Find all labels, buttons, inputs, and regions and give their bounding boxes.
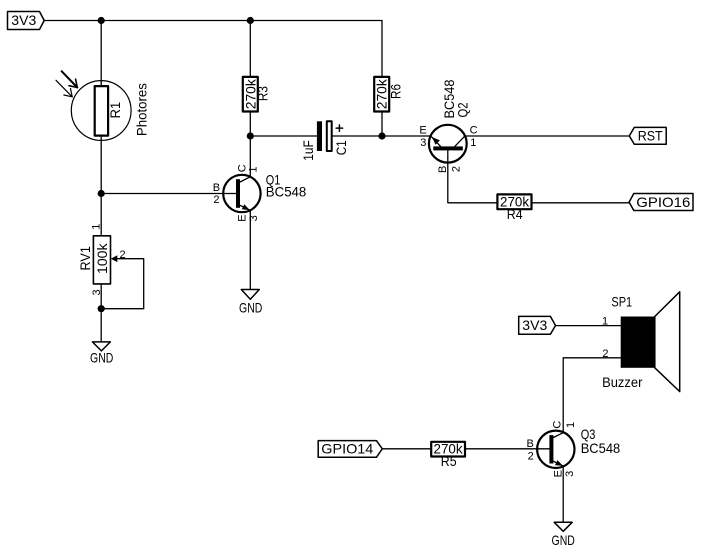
svg-text:E: E (419, 125, 426, 137)
R1 light arrow 1 (62, 71, 78, 87)
svg-text:RV1: RV1 (77, 246, 93, 270)
Q2 base bar (433, 146, 463, 150)
wire Q1 emitter to GND (249, 210, 251, 289)
svg-text:1: 1 (470, 137, 476, 149)
SP1 horn (655, 292, 680, 392)
wire R4 to GPIO16 (532, 202, 630, 204)
svg-text:Buzzer: Buzzer (602, 374, 643, 390)
wire Q2 base to R4 (448, 150, 498, 202)
Q1 emitter stroke (240, 205, 250, 210)
Q1 emitter arrow (242, 204, 250, 210)
svg-text:R5: R5 (441, 453, 457, 469)
svg-text:RST: RST (638, 128, 663, 144)
svg-text:R1: R1 (107, 102, 123, 119)
svg-text:1: 1 (602, 316, 608, 328)
svg-text:E: E (237, 214, 249, 221)
svg-text:GND: GND (552, 532, 575, 548)
wire top rail corner to R6 (381, 21, 383, 77)
wire top rail 3V3 (44, 20, 382, 22)
svg-text:C: C (470, 125, 478, 137)
photoresistor R1 (56, 71, 149, 140)
wire R3 bottom to node (249, 112, 251, 137)
svg-text:GPIO14: GPIO14 (321, 441, 373, 457)
ground (below Q1) (239, 290, 262, 316)
SP1 body rect (621, 317, 655, 368)
wire 3V3 to SP1 pin1 (556, 325, 621, 327)
RV1 wiper arrow (111, 255, 118, 262)
wire Q3 emitter to GND (562, 466, 564, 522)
potentiometer RV1 (77, 224, 126, 296)
svg-text:2: 2 (120, 249, 126, 261)
wire node to C1 (250, 135, 317, 137)
svg-text:R6: R6 (388, 84, 404, 99)
svg-text:1uF: 1uF (300, 140, 316, 161)
svg-text:Q2: Q2 (454, 102, 470, 117)
svg-text:1: 1 (91, 224, 103, 230)
svg-text:C1: C1 (333, 140, 349, 155)
transistor Q1 BC548 (213, 164, 307, 221)
C1 positive plate (327, 121, 332, 151)
svg-text:GND: GND (90, 350, 113, 366)
Q3 emitter stroke (553, 461, 563, 466)
R1 light arrow 2 (56, 80, 72, 97)
buzzer SP1 (602, 292, 680, 392)
Q2 body circle (429, 125, 467, 163)
ground (below RV1) (90, 342, 113, 366)
svg-text:3: 3 (564, 471, 576, 477)
svg-text:R4: R4 (507, 206, 523, 222)
node junction top rail / R1 (98, 17, 105, 24)
resistor R3 270k (242, 77, 270, 112)
C1 plus sign (336, 127, 342, 129)
svg-text:B: B (527, 438, 534, 450)
power flag 3V3 (top left) (8, 12, 45, 30)
wire R5 to Q3 base (465, 448, 549, 450)
svg-text:1: 1 (248, 166, 260, 172)
svg-text:BC548: BC548 (266, 183, 307, 199)
transistor Q2 BC548 (419, 79, 477, 173)
ground (below Q3) (552, 522, 575, 548)
svg-text:C: C (551, 421, 563, 429)
svg-text:2: 2 (450, 166, 462, 172)
Q1 collector stroke (240, 177, 250, 182)
node junction RV1 pin3 / wiper (98, 305, 105, 312)
svg-text:GND: GND (239, 299, 262, 315)
svg-text:2: 2 (528, 450, 534, 462)
wire R1 to RV1 (100, 136, 102, 236)
svg-text:3V3: 3V3 (522, 317, 547, 333)
Q2 emitter arrow (432, 137, 440, 145)
Q3 body circle (537, 431, 574, 468)
svg-text:1: 1 (565, 422, 577, 428)
node junction R6/C1/Q2 (378, 132, 385, 139)
Q2 collector stroke (455, 136, 465, 146)
svg-text:Photores: Photores (133, 83, 149, 136)
transistor Q3 BC548 (527, 421, 621, 478)
svg-text:B: B (213, 182, 220, 194)
wire R6 bottom to node (381, 112, 383, 137)
Q1 base bar (236, 179, 240, 208)
label GPIO14 (318, 441, 382, 458)
svg-text:3V3: 3V3 (11, 12, 36, 28)
wire top rail to R1 (100, 21, 102, 87)
wire RV1 pin3 to GND (100, 284, 102, 342)
Q2 emitter stroke (431, 136, 441, 146)
svg-text:E: E (552, 470, 564, 477)
power flag 3V3 (buzzer) (519, 316, 556, 334)
wire Q2 collector to RST (465, 135, 630, 137)
Q3 emitter arrow (555, 460, 563, 466)
wire RV1 wiper feedback (101, 259, 144, 309)
resistor R4 270k (497, 194, 531, 223)
C1 negative plate (317, 121, 322, 151)
svg-text:SP1: SP1 (611, 294, 632, 310)
capacitor C1 1uF (300, 121, 349, 160)
Q1 body circle (223, 175, 260, 212)
label GPIO16 (629, 194, 693, 211)
Q3 collector stroke (553, 433, 563, 438)
Q3 base bar (549, 435, 553, 463)
resistor R5 270k (431, 441, 465, 470)
svg-text:BC548: BC548 (581, 440, 621, 456)
label RST (629, 127, 666, 144)
resistor R6 270k (374, 77, 404, 112)
node junction R3/C1/Q1 collector (247, 132, 254, 139)
svg-text:R3: R3 (255, 86, 271, 101)
svg-text:2: 2 (213, 194, 219, 206)
svg-text:GPIO16: GPIO16 (636, 194, 690, 210)
wire SP1 pin2 to Q3 collector (563, 358, 621, 433)
node junction R1/RV1/Q1 base (98, 190, 105, 197)
wire C1 to Q2 emitter (332, 135, 431, 137)
node junction top rail / R3 (247, 17, 254, 24)
wire top rail to R3 (249, 21, 251, 77)
wire to Q1 base (101, 193, 236, 195)
wire GPIO14 to R5 (382, 448, 431, 450)
wire Q1 collector (249, 136, 251, 177)
svg-text:100k: 100k (94, 242, 110, 274)
svg-text:3: 3 (420, 137, 426, 149)
